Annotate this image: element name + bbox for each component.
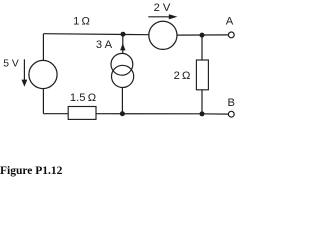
current source 3A upper circle bbox=[111, 53, 133, 75]
3A current arrowhead (up) bbox=[120, 43, 125, 50]
svg-text:B: B bbox=[227, 97, 234, 109]
junction dot bottom at 3A branch bbox=[120, 111, 125, 116]
svg-text:2 V: 2 V bbox=[154, 2, 171, 14]
wire 3A branch lower (current source to bottom node) bbox=[121, 88, 123, 114]
wire bottom-right (to terminal B) bbox=[202, 113, 228, 115]
svg-text:5 V: 5 V bbox=[3, 59, 19, 70]
junction dot bottom at 2 ohm branch bbox=[200, 111, 205, 116]
wire below 5V source bbox=[42, 89, 44, 114]
svg-text:1.5 Ω: 1.5 Ω bbox=[70, 92, 96, 104]
5V polarity arrow shaft bbox=[23, 59, 25, 81]
caption Figure P1.12 bbox=[0, 165, 62, 177]
wire 3A branch upper (dot to current source, carries arrow) bbox=[122, 35, 124, 54]
svg-text:1 Ω: 1 Ω bbox=[73, 16, 90, 28]
wire top-left horizontal (node from 5V+ to 2V source) bbox=[43, 34, 149, 35]
voltage source 5V circle bbox=[29, 60, 57, 88]
wire bottom-left (to 1.5 ohm resistor) bbox=[43, 113, 68, 115]
wire bottom middle (1.5 ohm to 2 ohm branch) bbox=[96, 113, 202, 115]
wire 2 ohm branch lower (resistor to bottom node) bbox=[201, 90, 203, 114]
terminal A open circle bbox=[228, 32, 234, 38]
svg-text:2 Ω: 2 Ω bbox=[174, 70, 191, 82]
junction dot top at 2 ohm branch bbox=[200, 33, 205, 38]
resistor 2 ohm body bbox=[196, 60, 208, 90]
wire 2 ohm branch upper (top node down to resistor) bbox=[201, 35, 203, 60]
svg-text:A: A bbox=[226, 16, 234, 28]
terminal B open circle bbox=[228, 111, 234, 117]
svg-text:3 A: 3 A bbox=[96, 39, 113, 51]
resistor 1.5 ohm body bbox=[68, 107, 96, 120]
voltage source 2V circle bbox=[149, 21, 177, 49]
wire top-right (2V source to terminal A) bbox=[177, 34, 228, 36]
2V polarity arrowhead (right) bbox=[169, 14, 178, 19]
2V polarity arrow shaft bbox=[148, 16, 171, 18]
wire left vertical (top node down to 5V source) bbox=[42, 34, 44, 61]
current source 3A lower circle bbox=[112, 65, 134, 87]
junction dot top at 3A branch bbox=[121, 32, 126, 37]
5V polarity arrowhead (down) bbox=[22, 80, 28, 87]
